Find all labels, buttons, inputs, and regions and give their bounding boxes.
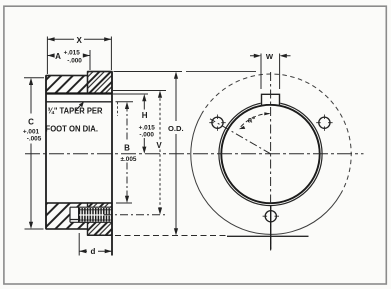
svg-text:-.005: -.005 (27, 136, 42, 143)
svg-text:O.D.: O.D. (168, 124, 184, 133)
svg-text:+.015: +.015 (139, 124, 156, 131)
dim C extension bottom (25, 228, 44, 230)
horizontal centerline (25, 153, 364, 155)
thread band lower (79, 216, 112, 222)
bore bottom line (46, 202, 112, 204)
C arrows (29, 78, 33, 85)
keyway bottom line (46, 92, 112, 94)
dim H ext top (113, 93, 148, 95)
hub bottom wall hatch (46, 203, 88, 229)
bottom hole vertical line (solid over centerline) (270, 205, 272, 250)
keyway outline (262, 94, 280, 106)
dim W ext lines (261, 54, 280, 90)
hub top wall hatch (46, 76, 88, 94)
dimension texts (section) (23, 36, 184, 256)
dim C line (30, 81, 32, 227)
bore top line (46, 101, 112, 103)
vertical centerline (270, 72, 272, 251)
thread band upper (79, 208, 112, 214)
taper note leader (76, 103, 84, 111)
svg-text:+.001: +.001 (23, 129, 40, 136)
dim d ext left (78, 233, 80, 256)
hub top outer line (46, 75, 88, 77)
bolt hole bottom (263, 211, 279, 222)
angle arc (239, 114, 269, 129)
svg-text:-.000: -.000 (139, 131, 154, 138)
svg-text:FOOT ON DIA.: FOOT ON DIA. (46, 124, 99, 134)
svg-text:±.005: ±.005 (121, 156, 137, 163)
svg-text:B: B (124, 144, 130, 153)
dim OD ext bottom (115, 235, 227, 237)
V arrows (158, 91, 162, 98)
B arrows (125, 102, 129, 109)
svg-text:H: H (142, 111, 148, 120)
dim B ext bottom (116, 202, 132, 204)
d arrows (79, 249, 86, 253)
angle arc arrow at radial (239, 126, 246, 129)
dim H line (143, 97, 145, 151)
dim OD ext top (114, 70, 257, 72)
bushing ring outer circle (219, 102, 322, 205)
dim d line (79, 250, 112, 252)
radial centerline to upper-left hole (210, 119, 271, 154)
flange OD circle dashed upper arc (202, 74, 352, 194)
dim V line (159, 94, 161, 212)
svg-text:-.000: -.000 (67, 57, 82, 64)
hub left face line (45, 76, 47, 230)
flange bottom wall hatch (88, 203, 113, 235)
dim B line dash-dot (126, 105, 128, 201)
hub bottom outer line (46, 228, 88, 230)
bore circle (thick) (221, 105, 319, 203)
dim W line (250, 55, 291, 57)
screw hole outline (70, 207, 112, 222)
keyway notch whiteout (261, 88, 281, 104)
svg-text:V: V (156, 141, 162, 150)
svg-text:A: A (55, 52, 61, 61)
svg-text:a°: a° (248, 115, 255, 124)
dim V ext top (113, 90, 166, 92)
dim A line (47, 55, 90, 57)
X arrows (47, 37, 54, 41)
bolt hole upper-right (316, 115, 332, 131)
stray dashed extension at flange face (117, 102, 119, 116)
flange OD circle solid lower-left arc (191, 114, 341, 234)
dim X ext left (46, 37, 48, 75)
dim B ext top (116, 101, 134, 103)
svg-text:+.015: +.015 (64, 50, 81, 57)
arrowheads for section dims (29, 37, 178, 253)
flange bottom outer line (88, 234, 113, 236)
hub/flange junction top (87, 72, 89, 94)
W arrows (254, 54, 261, 58)
cap screw hole white cutout (70, 207, 112, 222)
thread root lines (79, 210, 112, 220)
dim OD line (175, 75, 177, 233)
dim A ext right (89, 50, 91, 70)
svg-text:X: X (77, 36, 83, 45)
angle arc arrow at centerline (264, 112, 270, 115)
flange right face line (111, 72, 113, 256)
flange top outer line (88, 71, 113, 73)
svg-text:¾" TAPER PER: ¾" TAPER PER (48, 106, 103, 116)
hub/flange junction bottom (87, 229, 89, 235)
OD arrows (174, 72, 178, 79)
bolt hole upper-left (209, 115, 225, 131)
svg-text:C: C (28, 118, 34, 127)
flange top wall hatch (88, 72, 113, 94)
dim X ext right (110, 37, 112, 71)
dim X line (47, 38, 111, 40)
svg-text:W: W (266, 52, 274, 61)
dim C extension top (24, 77, 44, 79)
A arrows (47, 53, 54, 57)
H arrows (142, 94, 146, 101)
svg-text:d: d (91, 247, 96, 256)
screw hole centerline (104, 214, 165, 216)
